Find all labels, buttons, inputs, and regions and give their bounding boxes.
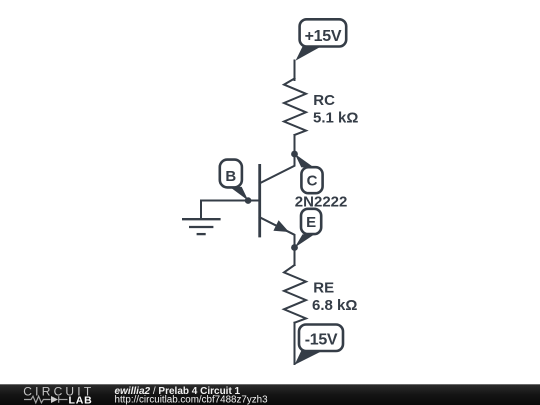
power label -15V: [295, 325, 343, 365]
svg-text:RC: RC: [313, 92, 335, 109]
wire emitter to RE: [294, 248, 296, 266]
ground: [182, 201, 221, 235]
resistor R2 (RE 6.8 k): [284, 265, 357, 323]
CircuitLab logo: [23, 384, 94, 405]
wire RC to collector node: [294, 135, 296, 154]
svg-text:E: E: [306, 214, 316, 231]
svg-text:2N2222: 2N2222: [295, 194, 348, 211]
svg-text:5.1 kΩ: 5.1 kΩ: [313, 110, 358, 127]
node E junction dot: [291, 244, 298, 251]
node B junction dot: [245, 197, 252, 204]
transistor Q1 2N2222: [260, 154, 348, 248]
power label +15V: [296, 19, 347, 60]
resistor R1 (RC 5.1 k): [284, 79, 358, 136]
svg-text:-15V: -15V: [305, 331, 338, 348]
node label B: [220, 160, 249, 201]
node label E: [295, 209, 322, 248]
svg-text:B: B: [225, 168, 236, 185]
svg-text:LAB: LAB: [69, 394, 93, 405]
svg-text:C: C: [307, 172, 318, 189]
svg-text:http://circuitlab.com/cbf7488z: http://circuitlab.com/cbf7488z7yzh3: [115, 394, 269, 405]
wire +15V to RC: [294, 61, 296, 81]
wire RE to -15V: [294, 323, 296, 364]
svg-text:RE: RE: [313, 279, 334, 296]
wire base (ground to transistor base): [201, 200, 260, 202]
svg-text:6.8 kΩ: 6.8 kΩ: [312, 297, 357, 314]
svg-text:+15V: +15V: [305, 28, 342, 45]
node C junction dot: [291, 151, 298, 158]
node label C: [295, 154, 323, 194]
